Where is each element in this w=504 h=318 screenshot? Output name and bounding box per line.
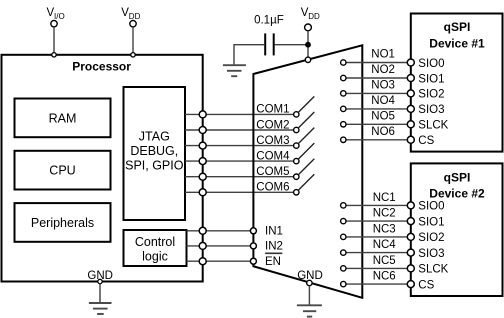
node NC6 contact — [341, 271, 396, 287]
svg-text:SIO2: SIO2 — [418, 232, 444, 244]
svg-text:SIO1: SIO1 — [418, 216, 444, 228]
wire Control logic to EN — [187, 260, 254, 262]
wire capacitor right plate to VDD net — [275, 44, 308, 46]
svg-text:NC6: NC6 — [373, 271, 396, 283]
node VDD supply terminal (left) — [121, 7, 140, 27]
junction VDD/cap — [305, 42, 311, 48]
pin SIO1 on qSPI2 — [407, 216, 444, 228]
wire NO6 to qSPI1 — [343, 139, 411, 141]
svg-text:NO4: NO4 — [371, 95, 395, 107]
svg-text:CS: CS — [418, 279, 434, 291]
pin IN2 on switch — [250, 241, 283, 253]
pin CS on qSPI1 — [407, 135, 434, 147]
wire processor GND to ground — [99, 284, 101, 303]
wire NO3 to qSPI1 — [343, 92, 411, 94]
switch lever COM2 — [298, 112, 314, 128]
svg-text:COM1: COM1 — [256, 104, 289, 116]
node COM3 contact — [256, 135, 299, 148]
pin SLCK on qSPI1 — [407, 120, 448, 132]
svg-text:NO3: NO3 — [371, 79, 395, 91]
capacitor C1 0.1uF — [265, 33, 274, 55]
svg-text:SPI, GPIO: SPI, GPIO — [125, 158, 184, 172]
svg-text:I/O: I/O — [54, 12, 65, 21]
svg-text:NC4: NC4 — [373, 239, 397, 251]
svg-text:SLCK: SLCK — [418, 120, 448, 132]
wire Control logic to IN1 — [187, 230, 254, 232]
ground symbol (switch) — [297, 305, 322, 316]
node VI/O supply terminal — [47, 7, 65, 27]
node NO6 contact — [341, 126, 395, 143]
svg-text:SIO2: SIO2 — [418, 89, 444, 101]
pin VDD on switch — [305, 57, 310, 62]
ground symbol (processor) — [89, 303, 112, 314]
wire VDD to switch — [307, 31, 309, 60]
svg-text:DD: DD — [308, 12, 320, 21]
wire NO1 to qSPI1 — [343, 62, 411, 64]
svg-text:SIO3: SIO3 — [418, 248, 444, 260]
node COM1 contact — [256, 104, 299, 117]
wire switch GND to ground — [308, 286, 310, 305]
svg-text:0.1µF: 0.1µF — [254, 14, 284, 26]
junction processor GPIO pin — [199, 189, 206, 196]
pin SIO2 on qSPI1 — [407, 89, 444, 101]
svg-text:NC5: NC5 — [373, 255, 396, 267]
junction processor GPIO pin — [199, 158, 206, 165]
switch lever COM1 — [298, 96, 314, 112]
wire NC5 to qSPI2 — [343, 267, 411, 269]
svg-text:qSPI: qSPI — [444, 170, 471, 184]
svg-text:EN: EN — [265, 256, 281, 268]
qSPI Device #1 box — [411, 14, 503, 152]
pin SIO0 on qSPI2 — [407, 201, 444, 213]
svg-text:RAM: RAM — [49, 111, 77, 125]
svg-text:SIO0: SIO0 — [418, 58, 444, 70]
CPU block — [15, 151, 111, 190]
pin SIO3 on qSPI1 — [407, 104, 444, 116]
svg-text:IN2: IN2 — [265, 241, 283, 253]
junction VDD pin on processor — [131, 53, 135, 57]
ground symbol (capacitor) — [223, 65, 246, 76]
Peripherals block — [15, 203, 111, 242]
node NO5 contact — [341, 110, 395, 127]
junction VI/O pin on processor — [52, 53, 56, 57]
svg-text:JTAG: JTAG — [139, 130, 170, 144]
junction processor GPIO pin — [199, 142, 206, 149]
switch lever COM6 — [298, 174, 314, 190]
wire VI/O to processor — [53, 27, 55, 55]
wire NC6 to qSPI2 — [343, 283, 411, 285]
svg-text:Control: Control — [135, 235, 175, 249]
wire JTAG to COM4 — [185, 160, 294, 162]
node COM2 contact — [256, 119, 299, 132]
RAM block — [15, 99, 111, 138]
svg-text:qSPI: qSPI — [444, 20, 471, 34]
svg-text:logic: logic — [142, 249, 168, 263]
node NO1 contact — [341, 49, 395, 66]
svg-text:NC3: NC3 — [373, 223, 396, 235]
wire capacitor left plate to ground — [234, 45, 264, 65]
pin GND on switch — [297, 270, 323, 286]
node NC3 contact — [341, 223, 396, 239]
svg-text:CS: CS — [418, 135, 434, 147]
svg-text:DD: DD — [129, 12, 141, 21]
switch lever COM3 — [298, 128, 314, 144]
svg-text:NC2: NC2 — [373, 208, 396, 220]
junction processor GPIO pin — [199, 111, 206, 118]
JTAG DEBUG SPI GPIO block — [124, 87, 186, 220]
junction processor GPIO pin — [199, 258, 206, 265]
wire JTAG to COM5 — [185, 176, 294, 178]
wire JTAG to COM3 — [185, 145, 294, 147]
wire JTAG to COM2 — [185, 129, 294, 131]
node NC5 contact — [341, 255, 396, 271]
pin IN1 on switch — [250, 226, 283, 238]
junction GND pin on processor — [98, 279, 102, 283]
pin EN on switch — [250, 253, 282, 268]
svg-text:DEBUG,: DEBUG, — [130, 144, 178, 158]
svg-text:COM2: COM2 — [256, 119, 289, 131]
switch lever COM4 — [298, 143, 314, 159]
svg-text:CPU: CPU — [49, 164, 75, 178]
junction processor GPIO pin — [199, 173, 206, 180]
svg-text:SLCK: SLCK — [418, 264, 448, 276]
node VDD supply terminal (switch) — [301, 7, 320, 31]
svg-text:NC1: NC1 — [373, 192, 396, 204]
pin SLCK on qSPI2 — [407, 264, 448, 276]
pin SIO0 on qSPI1 — [407, 58, 444, 70]
svg-text:COM3: COM3 — [256, 135, 289, 147]
switch lever COM5 — [298, 159, 314, 175]
node COM4 contact — [256, 150, 299, 163]
svg-text:NO5: NO5 — [371, 110, 395, 122]
node NC2 contact — [341, 208, 396, 224]
qSPI Device #2 box — [411, 163, 503, 296]
wire JTAG to COM6 — [185, 191, 294, 193]
pin SIO3 on qSPI2 — [407, 248, 444, 260]
svg-text:SIO1: SIO1 — [418, 73, 444, 85]
svg-text:NO1: NO1 — [371, 49, 395, 61]
svg-text:SIO3: SIO3 — [418, 104, 444, 116]
node NO2 contact — [341, 64, 395, 81]
processor box U1 — [2, 55, 203, 282]
node NC1 contact — [341, 192, 396, 208]
wire Control logic to IN2 — [187, 245, 254, 247]
Control logic block — [124, 230, 187, 266]
wire NC1 to qSPI2 — [343, 204, 411, 206]
svg-text:IN1: IN1 — [265, 226, 283, 238]
svg-text:SIO0: SIO0 — [418, 201, 444, 213]
analog switch U2 (mux body) — [253, 45, 362, 297]
junction processor GPIO pin — [199, 227, 206, 234]
wire NO2 to qSPI1 — [343, 77, 411, 79]
svg-text:Peripherals: Peripherals — [31, 216, 94, 230]
node NC4 contact — [341, 239, 397, 255]
pin SIO2 on qSPI2 — [407, 232, 444, 244]
svg-text:COM4: COM4 — [256, 150, 290, 162]
svg-text:COM5: COM5 — [256, 166, 289, 178]
wire NO5 to qSPI1 — [343, 123, 411, 125]
wire VDD to processor — [132, 27, 134, 55]
svg-text:Device #1: Device #1 — [429, 37, 485, 51]
svg-text:Device #2: Device #2 — [429, 186, 485, 200]
node NO3 contact — [341, 79, 395, 96]
node NO4 contact — [341, 95, 396, 112]
svg-text:COM6: COM6 — [256, 182, 289, 194]
wire NC2 to qSPI2 — [343, 220, 411, 222]
wire NC3 to qSPI2 — [343, 236, 411, 238]
wire JTAG to COM1 — [185, 113, 294, 115]
pin SIO1 on qSPI1 — [407, 73, 444, 85]
svg-text:NO6: NO6 — [371, 126, 395, 138]
node COM5 contact — [256, 166, 299, 179]
junction processor GPIO pin — [199, 242, 206, 249]
node COM6 contact — [256, 182, 299, 195]
svg-text:NO2: NO2 — [371, 64, 395, 76]
junction processor GPIO pin — [199, 127, 206, 134]
pin CS on qSPI2 — [407, 279, 434, 291]
svg-text:Processor: Processor — [72, 60, 131, 74]
wire NC4 to qSPI2 — [343, 252, 411, 254]
wire NO4 to qSPI1 — [343, 108, 411, 110]
